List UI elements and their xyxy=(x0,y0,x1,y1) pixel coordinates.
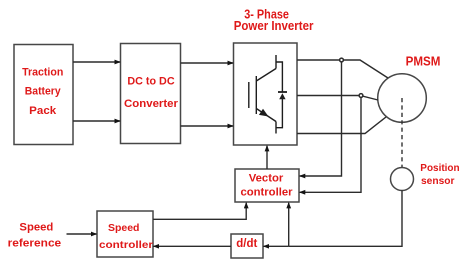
svg-text:Traction: Traction xyxy=(22,67,63,79)
svg-text:controller: controller xyxy=(240,186,293,198)
svg-text:Pack: Pack xyxy=(29,105,57,117)
svg-text:reference: reference xyxy=(8,237,62,249)
svg-text:Power Inverter: Power Inverter xyxy=(234,18,314,33)
svg-text:controller: controller xyxy=(99,239,153,251)
svg-text:PMSM: PMSM xyxy=(406,53,441,68)
svg-text:Position: Position xyxy=(420,162,459,174)
svg-text:Vector: Vector xyxy=(249,173,284,185)
svg-text:Speed: Speed xyxy=(108,222,140,234)
svg-text:Converter: Converter xyxy=(124,98,179,110)
svg-text:Battery: Battery xyxy=(25,86,62,98)
svg-text:Speed: Speed xyxy=(19,222,53,234)
svg-text:DC to DC: DC to DC xyxy=(127,76,174,88)
svg-text:d/dt: d/dt xyxy=(236,238,257,250)
svg-text:sensor: sensor xyxy=(421,175,455,187)
